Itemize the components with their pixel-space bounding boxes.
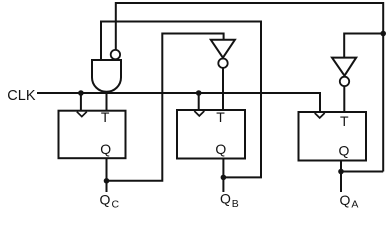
- and-gate U1 body: [92, 60, 121, 92]
- node CLK-FF2 junction: [196, 90, 202, 96]
- wire CLK to FF1 clock: [80, 93, 82, 111]
- svg-text:Q: Q: [100, 191, 111, 207]
- wire CLK bus: [37, 93, 320, 112]
- svg-text:B: B: [232, 198, 239, 209]
- flip-flop FF3 clock wedge: [315, 113, 325, 118]
- svg-text:T: T: [340, 113, 349, 129]
- svg-text:Q: Q: [100, 141, 111, 157]
- wire FF1 Q output to QC: [106, 158, 108, 192]
- flip-flop FF1 clock wedge: [77, 112, 87, 117]
- and-gate U1 input bubble: [111, 50, 120, 59]
- inverter U3 triangle: [332, 58, 356, 76]
- node top-right junction: [380, 31, 386, 37]
- inverter U3 bubble: [340, 77, 349, 86]
- wire right inverter output to FF3 T: [343, 86, 345, 112]
- svg-text:T: T: [101, 109, 110, 125]
- flip-flop FF3 box: [299, 112, 367, 161]
- svg-text:Q: Q: [338, 143, 349, 159]
- wire QC feedback to middle inverter input: [107, 34, 224, 181]
- svg-text:CLK: CLK: [7, 88, 36, 104]
- svg-text:A: A: [351, 199, 358, 210]
- node CLK-FF1 junction: [78, 90, 84, 96]
- svg-text:Q: Q: [220, 191, 231, 207]
- wire FF3 Q output to QA: [340, 161, 342, 193]
- wire CLK to FF2 clock: [198, 93, 200, 110]
- node QB junction: [221, 175, 227, 181]
- svg-text:C: C: [112, 198, 120, 209]
- flip-flop FF2 clock wedge: [194, 111, 204, 116]
- svg-text:Q: Q: [340, 192, 351, 208]
- wire middle inverter output to FF2 T: [222, 68, 224, 110]
- flip-flop FF2 box: [177, 110, 245, 159]
- wire branch to right inverter input: [344, 34, 383, 58]
- wire top feedback QA to AND bubble input: [116, 3, 383, 172]
- wire QA junction to right riser: [341, 171, 383, 173]
- inverter U2 triangle: [211, 40, 235, 58]
- svg-text:Q: Q: [215, 141, 226, 157]
- inverter U2 bubble: [218, 59, 227, 68]
- wire AND output to FF1 T: [106, 92, 108, 111]
- wire QB feedback to AND left input: [101, 22, 261, 178]
- flip-flop FF1 box: [59, 111, 126, 159]
- svg-text:T: T: [216, 109, 225, 125]
- node QA junction: [338, 169, 344, 175]
- wire FF2 Q output to QB: [222, 159, 224, 193]
- node QC junction: [104, 178, 110, 184]
